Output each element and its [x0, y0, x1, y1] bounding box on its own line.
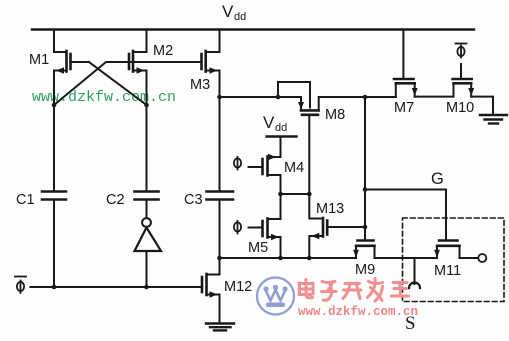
phi-bar label for M10 [456, 44, 467, 58]
transistor M8 (with bulk loop) [278, 82, 396, 194]
transistor M7 [394, 30, 454, 97]
svg-text:G: G [431, 170, 444, 188]
Vdd label top [222, 2, 246, 23]
bulk stub with dome [409, 258, 420, 288]
svg-text:C1: C1 [16, 192, 35, 208]
svg-text:dd: dd [234, 11, 246, 23]
transistor M11 [434, 241, 460, 259]
phi-bar label bottom left [15, 277, 26, 294]
transistor M13 [309, 194, 367, 258]
node wire M4-M13 [278, 192, 311, 197]
transistor M5 [249, 194, 281, 258]
svg-text:M7: M7 [394, 100, 414, 116]
svg-text:C2: C2 [106, 192, 125, 208]
transistor M1 [54, 30, 89, 106]
svg-text:M11: M11 [434, 263, 461, 279]
capacitor C1 [42, 105, 66, 287]
capacitor C3 [207, 97, 234, 258]
svg-text:M13: M13 [316, 201, 344, 217]
dashed box S [403, 218, 505, 302]
inverter [135, 218, 162, 287]
ground (right of M10) [480, 115, 507, 124]
G node wire [363, 97, 446, 241]
svg-text:V: V [263, 113, 275, 132]
ground (below M12) [206, 324, 234, 331]
cross-coupling wires [52, 62, 202, 107]
Vdd rail [32, 28, 474, 30]
svg-text:M9: M9 [355, 262, 375, 278]
Vdd stub bar [267, 135, 297, 137]
svg-text:www.dzkfw.com.cn: www.dzkfw.com.cn [298, 305, 418, 319]
svg-text:M4: M4 [284, 160, 304, 176]
svg-text:dd: dd [275, 122, 287, 134]
phi label M4 [234, 157, 241, 170]
svg-text:M8: M8 [325, 107, 345, 123]
svg-text:M1: M1 [29, 52, 49, 68]
transistor M9 [353, 241, 375, 259]
transistor M3 [202, 30, 220, 98]
svg-text:V: V [222, 2, 234, 21]
bottom mid wire with output terminal [217, 254, 486, 262]
watermark red url [298, 305, 418, 319]
transistor M12 [202, 258, 220, 323]
watermark red chinese text [299, 279, 409, 302]
phi label M5 [234, 221, 241, 234]
Vdd label mid [263, 113, 287, 134]
svg-text:M12: M12 [224, 279, 252, 295]
transistor M2 [129, 30, 147, 106]
node wire M3 source to M8 [217, 95, 301, 100]
svg-text:M2: M2 [153, 43, 173, 59]
transistor M4 [249, 137, 281, 195]
svg-text:C3: C3 [184, 192, 203, 208]
svg-text:M3: M3 [190, 77, 210, 93]
watermark green url [32, 89, 176, 106]
watermark blue W logo [257, 278, 294, 315]
bottom left wire [31, 285, 203, 290]
capacitor C2 [135, 105, 159, 218]
svg-text:M5: M5 [248, 240, 268, 256]
transistor M10 [453, 64, 493, 114]
svg-text:M10: M10 [446, 100, 474, 116]
